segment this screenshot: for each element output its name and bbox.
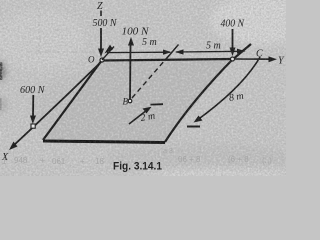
force arrow 400 N [232,29,234,49]
dimension riser at O [102,47,114,61]
faint bleed-through rectangle upper-left [26,8,96,52]
mottled shading patches [0,0,310,179]
ghost bleed-through text bottom [2,148,272,166]
node marker at 600 N [31,124,35,128]
Y axis [102,59,274,61]
dimension arrow 8 m [196,57,260,121]
node B marker [128,99,132,103]
scan grain overlay (light, on top) [0,0,286,176]
node O marker [100,58,104,62]
dashed locator line B to OC [132,52,172,98]
force arrow 600 N [32,95,34,117]
force arrow 500 N [100,28,102,50]
plate edge left [43,60,102,140]
force arrow 100 N (upward) [129,44,132,100]
dimension arrow 2 m [129,109,149,125]
node marker at 400 N [231,57,235,61]
border smudge left [0,62,2,80]
plate edge right [165,44,251,142]
X axis arrowhead [9,142,18,151]
paper background [0,0,286,176]
Z axis dash [100,11,102,17]
Y axis arrowhead [269,56,278,62]
plate edge bottom [43,141,165,143]
dimension line 5 m (second span) [176,50,243,53]
dimension line 5 m (first span) [107,51,170,53]
X axis [13,61,102,146]
plate (shaded lamina) [43,59,232,142]
